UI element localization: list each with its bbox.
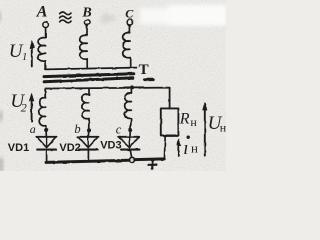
svg-text:VD3: VD3 [100,140,121,152]
wire: VD1 anode line through symbol [46,137,48,148]
svg-text:B: B [81,5,91,20]
svg-text:a: a [30,122,36,136]
svg-text:н: н [190,115,197,129]
svg-text:ı: ı [183,138,188,159]
svg-text:c: c [116,122,122,136]
AC waves symbol [60,12,71,23]
wire: winding b to node b [88,119,91,137]
svg-text:b: b [74,122,80,136]
dark smudge bottom-left edge [0,158,3,172]
svg-text:C: C [125,7,134,21]
wire: primary neutral bus [46,68,137,70]
white correction band top-right [140,8,226,24]
svg-text:A: A [36,4,48,21]
wire: secondary bus (minus rail) with corners [45,88,169,109]
svg-text:2: 2 [21,101,27,115]
svg-text:VD2: VD2 [59,142,80,154]
schematic ink [29,19,207,168]
wire: winding C to primary bus [129,58,131,68]
node b junction dot [87,128,91,132]
svg-text:фо: фо [101,10,115,24]
wire: bottom bus (plus rail) left segment [47,160,130,162]
paper background [0,0,226,171]
transformer T secondary winding c [130,88,132,93]
svg-text:1: 1 [22,52,27,63]
node c junction dot [128,128,132,132]
transformer T primary winding phase C [123,33,131,58]
plus polarity mark [148,161,156,169]
transformer core bar 2 [44,78,133,82]
wire: winding B to primary bus [86,59,88,69]
wire: winding c to node c [130,119,131,137]
wire: winding a to node a [45,126,48,137]
wire: VD2 cathode to bottom bus [87,150,89,162]
minus polarity mark [145,78,153,81]
junction dot node c top [130,86,133,89]
node C terminal [127,19,133,25]
transformer T secondary winding a [39,98,45,126]
transformer T secondary winding b [88,88,90,94]
transformer core bar 1 [44,74,134,77]
svg-text:T: T [139,62,149,78]
node B terminal [84,20,89,25]
wire: terminal C to winding [129,25,131,33]
wire: terminal A to winding [45,28,47,38]
wire: bottom bus right segment [135,157,164,161]
wire: winding A to primary bus [45,61,47,69]
transformer T primary winding phase B [80,35,88,59]
arrow U1 [31,42,33,66]
resistor RH box [161,108,179,135]
transformer T primary winding phase A [38,38,46,62]
wire: resistor bottom lead [163,135,166,159]
wire: VD1 cathode to bottom bus [46,150,48,163]
schematic text labels [8,4,227,159]
node circle on bottom bus [130,157,135,162]
svg-text:VD1: VD1 [8,142,29,154]
node A terminal [43,22,49,28]
diode VD3 [118,136,139,138]
arrow UH (output voltage) [204,105,206,156]
svg-text:н: н [220,120,226,134]
diode VD1 [36,136,57,138]
arrow U2 [31,96,33,122]
wire: VD3 cathode to bottom node circle [130,150,131,158]
wire: terminal B to winding [86,25,88,36]
svg-text:н: н [191,140,198,155]
arrow iH (load current) [178,141,180,156]
node a junction dot [44,128,48,132]
svg-text:R: R [179,111,190,128]
diode VD2 [78,136,99,138]
